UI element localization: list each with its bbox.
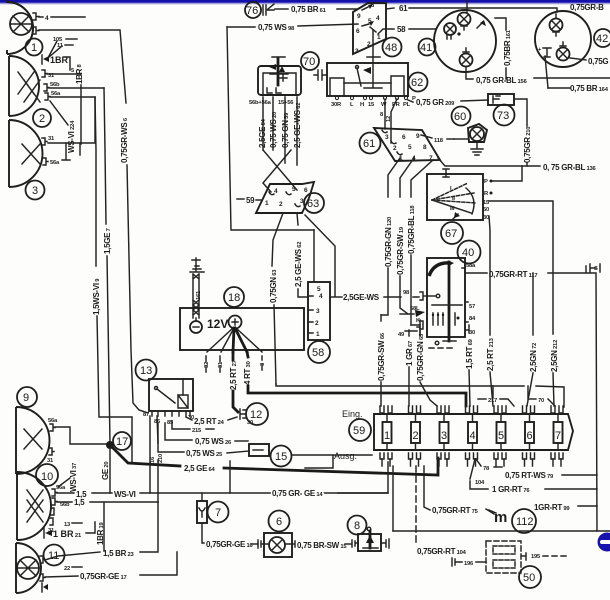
battery 18 box [180,308,304,350]
svg-text:6: 6 [304,187,308,194]
switch 61 hooks [382,130,402,155]
leader lines to 1BR [49,41,62,57]
svg-text:7: 7 [555,430,561,442]
title bar [0,0,610,3]
svg-text:31: 31 [47,458,54,464]
svg-text:78: 78 [483,466,490,472]
pin 31 lamp2 [42,70,47,77]
svg-text:S: S [594,266,598,272]
wire 0,75GR-GE 17 [45,576,78,577]
wire GR-WS 6 (lamp1 to relay13) [39,30,126,103]
crossing wires into switch 63 [263,150,297,192]
svg-text:17: 17 [116,436,128,448]
instrument cluster 42 [535,11,591,67]
wire ignition 30 down [489,216,490,335]
flasher relay 40 box [427,258,465,337]
relay 13 internals [155,387,158,390]
circle 40 [458,241,481,264]
svg-text:3: 3 [32,185,38,197]
svg-text:15: 15 [275,451,287,463]
X symbol lamp3 [22,144,40,164]
component 8 sender [348,516,367,535]
battery plus terminal [229,316,242,329]
pins lamp10 [52,489,57,496]
svg-text:1: 1 [265,200,269,207]
circle 58 [308,341,330,363]
svg-text:196: 196 [464,561,474,567]
switch 48 contact arrows [362,7,368,10]
fuse box 59 outline [374,414,573,450]
box 73 [488,94,514,105]
svg-text:12: 12 [386,116,392,122]
wire 118 [421,135,432,138]
svg-text:2: 2 [413,430,419,442]
wire 2,5GN 72 [532,273,534,335]
pin 56a lamp9 [50,424,55,431]
wire 104 / 1 GR-RT 76 [470,459,475,479]
svg-text:210: 210 [158,454,164,463]
T symbol in 42 [543,48,551,57]
wire 0,75GR-GN 65 into fusebox [419,320,421,335]
circle 60 [452,107,471,126]
fuse 7 [554,422,563,443]
svg-text:12: 12 [250,409,262,421]
svg-text:60: 60 [454,111,466,123]
lamp 1 housing (horn, top left) [7,0,33,54]
svg-text:5: 5 [408,144,412,151]
lamp 10 housing [17,472,51,540]
circle 50 [519,566,541,588]
svg-text:P: P [484,179,488,185]
svg-text:Ausg.: Ausg. [334,451,357,461]
svg-text:30: 30 [469,330,475,336]
svg-text:215: 215 [192,428,202,434]
svg-text:W: W [381,102,387,108]
connector arrow lamp11 bottom [41,583,43,592]
svg-text:8: 8 [354,520,360,532]
wire 1 GR 67 into fusebox [408,330,410,336]
switch 63 body [256,182,314,213]
svg-text:2: 2 [367,41,371,48]
svg-text:59: 59 [246,196,255,205]
flasher internal divider [448,262,451,341]
wire 1,5GE 7 (to node 17) [104,88,106,224]
X symbol lamp9 [24,429,42,449]
svg-text:31: 31 [48,73,55,79]
fuse 3 [440,422,449,443]
svg-text:1,5: 1,5 [74,498,85,507]
warning lamp 60 [468,124,487,142]
circle 73 label [494,105,515,126]
battery ground strap hatched [193,274,199,318]
bold wire 4RT30 bus [247,352,466,406]
wire to instrument top [466,0,468,12]
wire lamp9 56a to node17 [55,427,110,444]
svg-text:1: 1 [316,331,320,338]
wire 1GR-RT 75 to distributor [486,509,494,514]
svg-text:50: 50 [483,207,489,213]
circle 6 [269,511,290,532]
fuse 6 [525,422,534,443]
wire 56b to GE line [49,87,104,89]
wire 2,5GE-WS 62 from sw63 down [297,213,298,225]
svg-text:15+56: 15+56 [278,100,294,106]
wire fuse3 output to 0,75GR-RT 75 [424,466,430,510]
fuse 2 [411,422,420,443]
circle 59 [349,419,371,441]
wire WS-VI 9 (to relay13 area) [95,97,96,266]
wire 118 continues to lamp60 [454,138,468,140]
svg-text:195: 195 [531,554,541,560]
drop from thin line to f5 [492,386,494,398]
svg-text:2,5GE-WS: 2,5GE-WS [343,293,380,302]
arrow in 41 [477,22,483,28]
circle 10 [36,464,58,486]
wire 0,75 GR-BL 156 [466,67,473,79]
svg-text:73: 73 [497,110,509,122]
connector pin 196 [452,558,462,566]
svg-text:8: 8 [423,144,427,151]
wire 0,75 GR 209 [408,100,413,102]
label 70 [528,398,536,400]
wire 56a net [50,97,95,155]
svg-text:2: 2 [393,145,397,152]
svg-text:16: 16 [150,456,156,463]
wire 0,75 WS 25 [158,423,184,452]
svg-text:56b+56a: 56b+56a [249,100,272,106]
connector arrow 1BR [41,55,43,64]
svg-text:6: 6 [276,516,282,528]
wire 58 [378,29,394,34]
wire ignition 15 right [489,201,553,334]
svg-text:67: 67 [445,228,457,240]
relay 62 left sub-box [330,78,344,95]
wire lamp42 right [570,58,586,60]
svg-text:98: 98 [403,290,410,296]
svg-text:56a: 56a [56,485,66,491]
circle 41 label [419,39,436,56]
svg-text:61: 61 [399,4,408,13]
relay 62 right sub-box [391,76,404,95]
svg-text:m: m [494,509,507,526]
lamp in 41 left [444,23,456,35]
lamp 11 housing [16,543,41,593]
circle 2 [33,109,51,127]
battery minus terminal [190,321,202,333]
circle 61 [360,133,381,154]
wire 0,75 GR-BL 136 [438,158,540,166]
wire 0,75 WS 98 [227,26,255,28]
wire 0,75 BR 61 top [275,8,288,10]
connector S right [586,264,600,272]
svg-text:4: 4 [45,15,49,22]
svg-text:31: 31 [48,136,55,142]
svg-text:13: 13 [140,365,152,377]
lamp 3 housing [9,120,43,187]
svg-text:50: 50 [523,572,535,584]
instrument cluster 41 [434,10,496,72]
svg-text:58: 58 [397,25,406,34]
switch 61 body [374,128,440,161]
svg-text:70: 70 [538,398,544,404]
svg-text:58a: 58a [466,263,476,269]
svg-text:59: 59 [353,425,365,437]
node 17 junction [106,441,114,449]
diagonal sw63 to connector [305,215,335,296]
wire fuse2 output [392,466,394,531]
pin 56a lamp2 [45,93,50,100]
circle 1 [26,39,43,56]
svg-text:6: 6 [527,430,533,442]
bold wire 2,5RT27 to circle 12 [233,352,238,412]
label 217 [478,398,486,400]
component 7 fuse [201,493,203,501]
svg-text:9: 9 [23,392,29,404]
fuse bottom stems [382,459,561,466]
connector symbol 76 [263,4,274,15]
wire 1,5 RT 69 [468,325,470,333]
wire 1,5 BR 23 [45,552,100,560]
svg-text:15: 15 [368,102,375,108]
svg-text:0,75GR-WS 6: 0,75GR-WS 6 [120,117,129,163]
svg-text:WS-VI: WS-VI [114,490,136,499]
svg-text:18: 18 [228,292,240,304]
wires under relay 70 [263,97,297,165]
fuse 1 [383,422,392,443]
svg-text:3: 3 [355,48,359,55]
relay 70 bottom hooks [267,88,281,93]
circle 67 [441,222,463,244]
pin 56b lamp2 [44,84,49,91]
flasher arc symbol [429,263,450,276]
wire GN 63 from sw63 [272,213,283,266]
pin lamp1 b [33,27,39,34]
wire 0,75GR-SW 66 into fusebox [380,315,382,321]
bracket 5 [64,57,70,70]
svg-text:5: 5 [292,186,296,193]
svg-text:56a: 56a [48,418,58,424]
svg-text:1: 1 [384,430,390,442]
thin wire y386 [276,384,564,407]
battery wire fan [207,328,262,352]
svg-text:85: 85 [167,420,174,426]
connector 58 box [308,282,330,340]
svg-text:PL: PL [403,102,411,108]
double-X symbol lamp10 [27,490,43,522]
fuse 5 [497,422,506,443]
svg-text:217: 217 [488,398,497,404]
svg-text:6: 6 [402,134,406,141]
svg-text:2: 2 [315,320,319,327]
connector E 12 [240,409,246,419]
wires from sw61 down: SW19 [400,158,414,197]
lamp in 42 bottom [557,48,570,61]
ground 161 [190,258,204,272]
svg-text:5: 5 [317,286,321,293]
svg-text:87: 87 [143,412,149,418]
label 59 [237,198,244,200]
switch 48 body [353,3,386,54]
lamp 9 housing [16,407,50,474]
label 2,5GE-WS [331,296,342,298]
wires from sw61 down: GN120 [388,158,400,197]
ignition switch 67 box [427,174,483,220]
wire 0,75GR-RT 117 [465,272,487,274]
fuse top pins [380,406,563,413]
svg-text:58: 58 [312,347,324,359]
relay 13 pins [152,411,190,416]
wire 78 / 0,75 RT-WS 79 [476,459,481,466]
flasher internal pins [433,313,455,325]
svg-text:84: 84 [469,316,476,322]
bracket near lamp3 [62,143,70,160]
pin 31 lamp3 [42,138,47,145]
circle 62 [409,73,428,92]
svg-text:9: 9 [416,133,420,140]
leader WS-VI 224 [50,101,68,125]
relay 70 inner box [263,73,296,95]
svg-text:118: 118 [434,138,444,144]
wire from box73 right [514,99,527,126]
svg-text:32: 32 [204,362,210,368]
svg-text:56a: 56a [51,91,61,97]
circle 76 [245,2,261,18]
circle 11 [44,545,65,566]
relay 70 switch symbol [277,58,280,85]
lamp 2 housing [9,56,39,116]
wire 0,75BR 161 [495,18,506,30]
dashed box 50 [486,541,521,573]
wire WS98 loop left [227,27,314,230]
relay 62 box [327,63,408,96]
svg-text:4: 4 [470,430,476,442]
svg-text:56a: 56a [50,160,60,166]
circle 15 [271,446,292,467]
svg-text:112: 112 [516,516,534,528]
relay 13 circle [136,360,157,381]
svg-text:6: 6 [356,28,360,35]
wire 2,5 RT 24 [186,417,192,420]
svg-text:1,5WS-VI 9: 1,5WS-VI 9 [92,278,101,315]
svg-text:0,75GR-B: 0,75GR-B [570,3,604,12]
svg-text:42: 42 [596,33,608,45]
fuse holder 15 [249,444,269,456]
pin lamp1 a [33,13,39,20]
pin 56a lamp3 [43,158,48,165]
svg-text:70: 70 [303,56,315,68]
svg-text:0,75G: 0,75G [588,57,608,66]
svg-text:3: 3 [316,308,320,315]
wire 215 [172,421,190,429]
svg-text:4: 4 [376,15,380,22]
lamp in 42 top [550,19,563,32]
svg-text:Eing.: Eing. [342,409,363,419]
ground symbol lamp60 [471,142,483,155]
lamp in 41 top [458,13,471,26]
svg-text:56b: 56b [60,502,70,508]
drop from thin line to f6 [527,386,529,398]
ground wire 1BR net [47,74,81,144]
circle 3 [26,181,45,200]
svg-text:31: 31 [218,361,224,368]
circle 12 [246,403,268,425]
circle 63 [304,193,324,213]
svg-text:48: 48 [385,42,397,54]
flasher right pins [465,302,468,330]
fuse bottom pins [380,453,563,459]
relay 62 pins [335,96,407,99]
pin 195 right [522,553,526,560]
svg-text:57: 57 [469,304,475,310]
svg-text:III: III [450,206,455,212]
flasher bottom [435,341,439,345]
circle 17 [113,432,131,450]
wires relay62 to switch61 [385,99,397,143]
wire 1,5 WS-M line y494 [57,492,112,494]
svg-text:H: H [360,102,364,108]
connector pins between 70 and 62 [314,70,327,80]
svg-text:61: 61 [363,138,375,150]
svg-text:49: 49 [398,332,405,338]
svg-text:1: 1 [377,34,381,41]
svg-text:22: 22 [64,566,70,572]
svg-text:5: 5 [498,430,504,442]
long bottom wire [393,530,610,532]
relay 62 T symbol [344,30,391,88]
svg-text:56b: 56b [50,82,60,88]
connector 58 top wire [313,230,315,282]
relay 13 box [149,379,193,411]
circle 48 [383,38,402,57]
ignition internals [443,169,449,177]
relay 70 outer box [258,66,301,95]
bold wire 2,5 GE 64 [111,446,180,466]
double-X symbol lamp2 [18,72,40,102]
svg-text:7: 7 [215,507,221,519]
wire 0,75GR-GE 16 [202,523,204,543]
svg-text:30: 30 [483,215,489,221]
wire 1BR19 [103,502,105,551]
circle 18 [224,287,244,307]
connector arrow 1BR21 [43,528,45,538]
wires from sw61 down: BL118 [411,160,433,197]
svg-text:9: 9 [357,13,361,20]
svg-text:2: 2 [279,201,283,208]
svg-text:104: 104 [475,480,485,486]
svg-text:63: 63 [307,198,319,210]
dashed wire from fuse [415,466,417,546]
svg-text:3: 3 [385,134,389,141]
relay wires down 16 210 [132,416,158,502]
lamp in 41 bottom [460,54,473,67]
component 6 lamp box [264,533,292,557]
circle 9 [17,387,37,407]
svg-text:30R: 30R [331,102,342,108]
horn symbol lamp11 [17,557,39,579]
circle 7 [208,502,229,523]
fuse 4 [468,422,477,443]
pins lamp11 [40,556,45,563]
circle 70 [301,52,319,70]
svg-text:2: 2 [39,113,45,125]
svg-text:41: 41 [420,42,432,54]
svg-text:10: 10 [41,471,53,483]
svg-text:76: 76 [246,5,258,17]
wire 1,5 line y502 [57,501,158,503]
blue button bottom right [598,533,610,552]
horn symbol lamp1 [10,13,32,35]
svg-text:13: 13 [64,522,71,528]
